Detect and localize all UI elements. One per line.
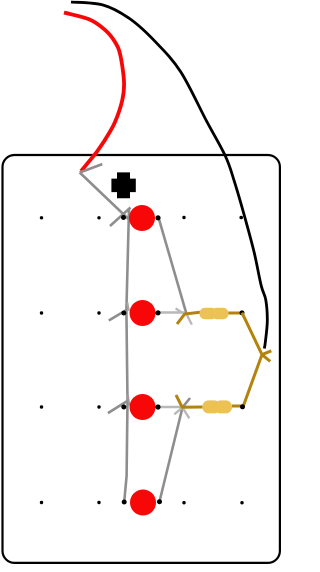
node: R2 right lead dot xyxy=(240,404,245,409)
resistor R1 body xyxy=(200,308,229,320)
wire: D2 cathode to junction X2 xyxy=(159,311,186,313)
junction X2 twist spurs xyxy=(176,308,192,324)
node: R1 right lead dot xyxy=(240,310,245,315)
wire: twist strand at D3 anode xyxy=(128,395,130,406)
wire: twist spur at D3 anode xyxy=(108,401,127,413)
wire: D1 cathode to junction X2 xyxy=(159,218,187,315)
battery positive lead (red wire) xyxy=(64,13,124,172)
node: D4 cathode dot xyxy=(157,499,162,504)
node: D4 anode dot xyxy=(122,500,127,505)
node: D2 cathode dot xyxy=(155,310,160,315)
wire: R1 to junction X4 (goldenrod) xyxy=(242,313,262,355)
LED D2 xyxy=(130,300,156,326)
resistor R2 leads xyxy=(176,395,243,407)
wire: D3 cathode to junction X3 xyxy=(159,406,184,408)
wire: twist spur at D2 anode xyxy=(109,310,127,321)
node: D1 cathode dot xyxy=(155,215,160,220)
LED D4 xyxy=(130,490,156,516)
node: D2 anode dot xyxy=(121,311,126,316)
resistor R1 leads xyxy=(177,312,242,324)
junction X4 twist spurs xyxy=(262,351,271,362)
wire: twist strand at D2 anode xyxy=(127,303,129,311)
polarity marker + xyxy=(111,172,135,198)
resistor R2 body xyxy=(202,400,232,413)
node: D3 cathode dot xyxy=(155,404,160,409)
LED D3 xyxy=(130,394,156,420)
board outline xyxy=(3,155,280,563)
node: D1 anode dot xyxy=(121,215,126,220)
LED D1 xyxy=(129,205,155,231)
grid holes xyxy=(40,216,244,505)
battery negative lead (black wire) xyxy=(71,2,267,349)
wire: twist spur at node A xyxy=(110,208,131,227)
wire: red lead twist spur xyxy=(80,164,103,172)
wire: vertical bus from D1 anode to D4 anode xyxy=(124,209,129,502)
wire: D4 cathode to junction X3 xyxy=(160,398,191,502)
node: D3 anode dot xyxy=(121,405,126,410)
wire: red lead to LED D1 anode xyxy=(80,173,130,221)
wire: junction X4 to R2 (goldenrod) xyxy=(244,355,263,406)
junction X3 twist spurs xyxy=(174,408,189,419)
